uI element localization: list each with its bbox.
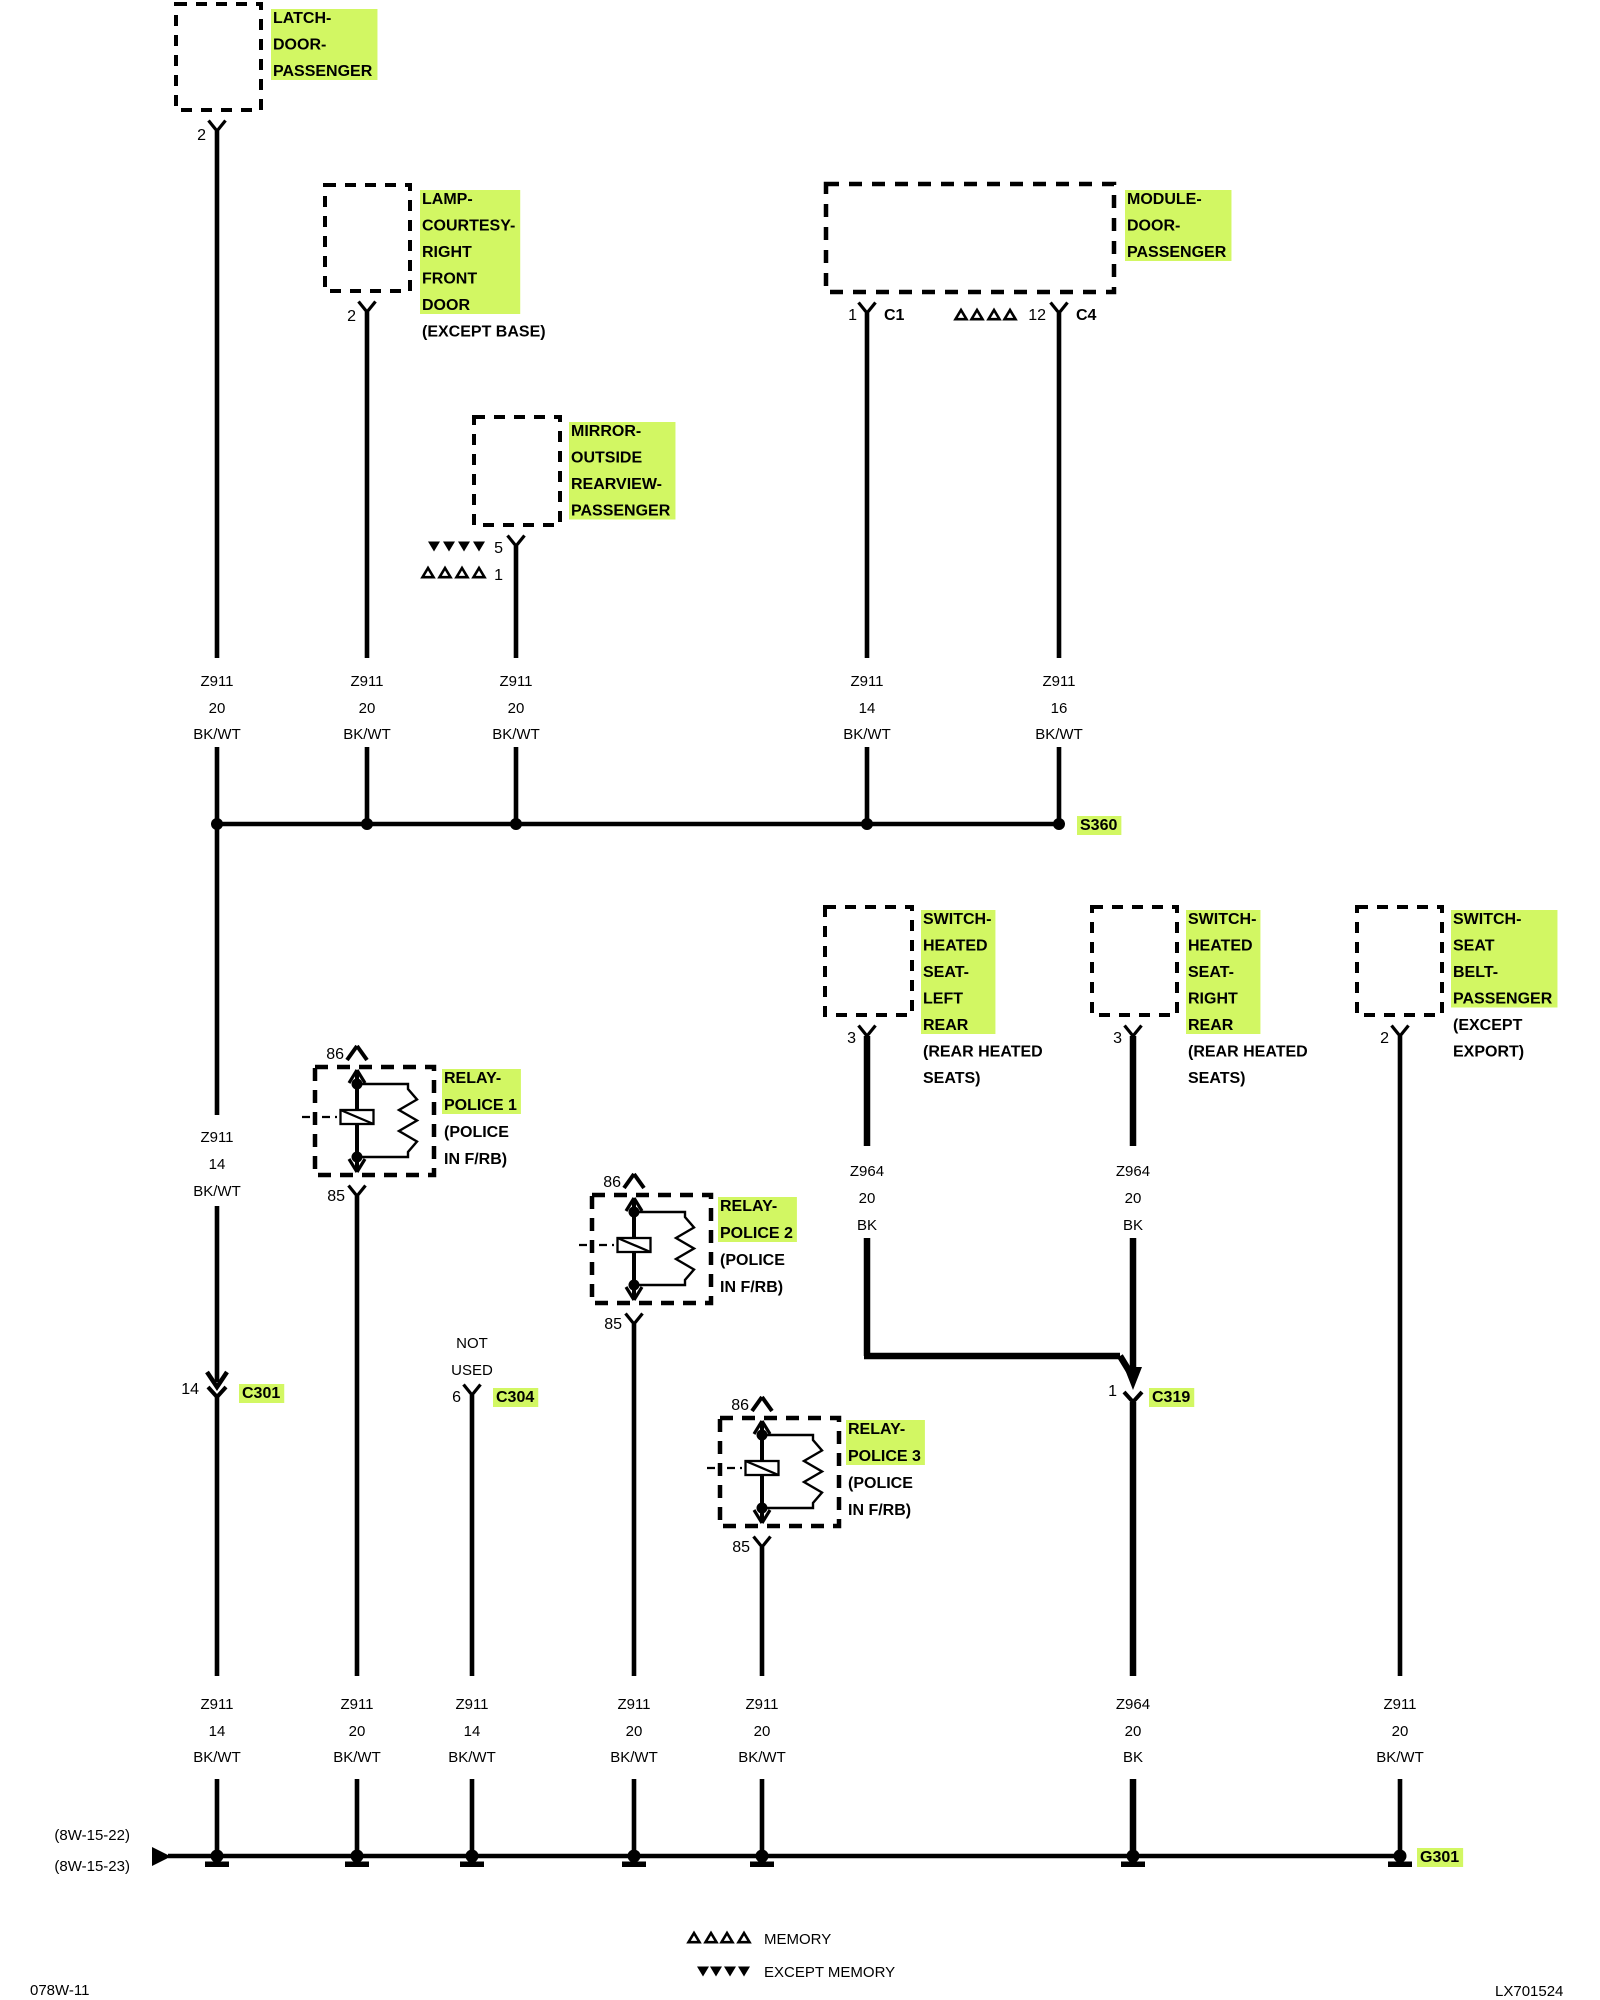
connector label C304 — [493, 1388, 538, 1407]
connector C319 arrow — [1124, 1367, 1142, 1390]
svg-text:BK: BK — [857, 1217, 877, 1234]
relay RELAY-POLICE 1 bottom arrow — [349, 1159, 365, 1172]
wire label Z964 20 BK C319 bottom — [1116, 1696, 1150, 1766]
component box LATCH-DOOR-PASSENGER — [176, 4, 261, 110]
svg-text:86: 86 — [731, 1397, 749, 1414]
svg-text:SEATS): SEATS) — [1188, 1070, 1245, 1087]
svg-text:C4: C4 — [1076, 307, 1097, 324]
svg-text:20: 20 — [209, 700, 226, 717]
relay box RELAY-POLICE 3 — [720, 1418, 839, 1526]
svg-text:FRONT: FRONT — [422, 271, 477, 288]
pin 1 module connector C1 — [859, 303, 876, 314]
svg-text:IN F/RB): IN F/RB) — [720, 1279, 783, 1296]
svg-text:1: 1 — [848, 307, 857, 324]
splice dot S360 col4 — [861, 818, 873, 830]
relay RELAY-POLICE 3 resistor — [762, 1435, 822, 1508]
svg-text:5: 5 — [494, 540, 503, 557]
wire heated-right upper — [1130, 1036, 1137, 1146]
svg-text:RIGHT: RIGHT — [1188, 991, 1238, 1008]
label RELAY-POLICE 3 — [846, 1420, 925, 1519]
connector name C1 — [884, 307, 905, 324]
svg-text:LEFT: LEFT — [923, 991, 963, 1008]
svg-text:DOOR-: DOOR- — [1127, 218, 1180, 235]
svg-text:14: 14 — [209, 1156, 226, 1173]
pin 1 C319 number — [1108, 1383, 1117, 1400]
relay RELAY-POLICE 2 internal wire — [632, 1199, 636, 1299]
svg-text:(POLICE: (POLICE — [444, 1124, 509, 1141]
svg-text:20: 20 — [1392, 1723, 1409, 1740]
svg-text:BK/WT: BK/WT — [843, 726, 891, 743]
label SWITCH-SEAT-BELT-PASSENGER — [1451, 910, 1557, 1061]
pin 86 label RELAY-POLICE 3 — [731, 1397, 749, 1414]
wire heated-left upper — [864, 1036, 871, 1146]
svg-text:PASSENGER: PASSENGER — [273, 63, 373, 80]
ground junction G301 #1 — [205, 1850, 229, 1868]
label SWITCH-HEATED-SEAT-LEFT-REAR — [921, 910, 1043, 1087]
label MIRROR-OUTSIDE-REARVIEW-PASSENGER — [569, 422, 675, 520]
svg-text:20: 20 — [859, 1190, 876, 1207]
svg-text:1: 1 — [1108, 1383, 1117, 1400]
svg-text:REAR: REAR — [923, 1017, 969, 1034]
svg-text:PASSENGER: PASSENGER — [1453, 991, 1553, 1008]
splice bus S360 — [217, 822, 1059, 827]
relay RELAY-POLICE 3 bottom arrow — [754, 1510, 770, 1523]
svg-text:PASSENGER: PASSENGER — [1127, 244, 1227, 261]
wire C304 to G301 — [470, 1779, 475, 1856]
component box LAMP-COURTESY-RIGHT-FRONT-DOOR — [325, 185, 410, 291]
svg-text:BK/WT: BK/WT — [193, 1749, 241, 1766]
wire relay3 pin85 down — [760, 1547, 765, 1676]
svg-text:MIRROR-: MIRROR- — [571, 423, 641, 440]
connector 86 arrow RELAY-POLICE 3 — [752, 1397, 772, 1411]
wire heated-right to C319 — [1130, 1238, 1137, 1372]
svg-text:POLICE 2: POLICE 2 — [720, 1225, 793, 1242]
connector C319 chevron — [1124, 1392, 1142, 1402]
wire label Z911 14 BK/WT col1 bottom — [193, 1696, 241, 1766]
wire seatbelt down — [1398, 1036, 1403, 1676]
svg-text:OUTSIDE: OUTSIDE — [571, 450, 642, 467]
svg-text:EXCEPT MEMORY: EXCEPT MEMORY — [764, 1964, 895, 1981]
ground junction G301 #5 — [750, 1850, 774, 1868]
svg-text:DOOR: DOOR — [422, 297, 470, 314]
svg-text:14: 14 — [209, 1723, 226, 1740]
svg-text:2: 2 — [347, 308, 356, 325]
component box MODULE-DOOR-PASSENGER — [826, 184, 1114, 292]
pin 1 module number — [848, 307, 857, 324]
splice dot S360 col1 — [211, 818, 223, 830]
wire label Z911 20 BK/WT relay2 bottom — [610, 1696, 658, 1766]
svg-text:BK/WT: BK/WT — [738, 1749, 786, 1766]
relay RELAY-POLICE 3 coil — [746, 1461, 779, 1475]
svg-text:REARVIEW-: REARVIEW- — [571, 476, 662, 493]
relay RELAY-POLICE 1 top arrow — [349, 1070, 365, 1083]
svg-text:Z911: Z911 — [745, 1696, 778, 1713]
component box SWITCH-HEATED-SEAT-RIGHT-REAR — [1092, 907, 1177, 1015]
label SWITCH-HEATED-SEAT-RIGHT-REAR — [1186, 910, 1308, 1087]
svg-text:C304: C304 — [496, 1389, 534, 1406]
svg-text:SWITCH-: SWITCH- — [1453, 911, 1521, 928]
pin 3 heated-right connector — [1125, 1026, 1142, 1037]
svg-text:Z964: Z964 — [850, 1163, 884, 1180]
svg-text:85: 85 — [327, 1188, 345, 1205]
svg-text:16: 16 — [1051, 700, 1068, 717]
svg-text:(EXCEPT BASE): (EXCEPT BASE) — [422, 324, 546, 341]
svg-text:BK/WT: BK/WT — [1035, 726, 1083, 743]
relay RELAY-POLICE 3 top arrow — [754, 1421, 770, 1434]
relay RELAY-POLICE 1 junction bottom — [352, 1152, 363, 1163]
connector label C319 — [1149, 1388, 1194, 1407]
connector name C4 — [1076, 307, 1097, 324]
svg-text:20: 20 — [1125, 1723, 1142, 1740]
svg-text:Z911: Z911 — [350, 673, 383, 690]
svg-text:20: 20 — [359, 700, 376, 717]
svg-text:BK/WT: BK/WT — [1376, 1749, 1424, 1766]
svg-text:C1: C1 — [884, 307, 905, 324]
svg-text:BK/WT: BK/WT — [193, 726, 241, 743]
label RELAY-POLICE 1 — [442, 1069, 521, 1168]
svg-text:C301: C301 — [242, 1385, 280, 1402]
ground label G301 — [1417, 1848, 1463, 1867]
wire lamp to S360 (lower) — [365, 747, 370, 824]
svg-text:COURTESY-: COURTESY- — [422, 218, 515, 235]
pin 3 heated-left connector — [859, 1026, 876, 1037]
svg-text:SEAT-: SEAT- — [923, 964, 969, 981]
wire latch to S360 (lower) — [215, 747, 220, 824]
svg-text:(POLICE: (POLICE — [720, 1252, 785, 1269]
label MODULE-DOOR-PASSENGER — [1125, 190, 1231, 261]
svg-text:RIGHT: RIGHT — [422, 244, 472, 261]
svg-text:2: 2 — [197, 127, 206, 144]
svg-text:HEATED: HEATED — [923, 938, 988, 955]
svg-text:14: 14 — [859, 700, 876, 717]
relay RELAY-POLICE 3 junction top — [757, 1430, 768, 1441]
wire label Z911 20 BK/WT col2 top — [343, 673, 391, 743]
svg-text:IN F/RB): IN F/RB) — [848, 1502, 911, 1519]
connector 86 arrow RELAY-POLICE 2 — [624, 1174, 644, 1188]
pin 3 heated-left number — [847, 1030, 856, 1047]
wire label to C301 — [215, 1206, 220, 1382]
svg-text:6: 6 — [452, 1389, 461, 1406]
svg-text:MODULE-: MODULE- — [1127, 191, 1202, 208]
wire mirror to S360 (upper) — [514, 546, 519, 658]
pin 5 mirror connector — [508, 536, 525, 547]
legend MEMORY text — [764, 1931, 831, 1948]
ground junction G301 #6 — [1121, 1850, 1145, 1868]
pin 85 connector RELAY-POLICE 3 — [754, 1537, 771, 1548]
splice dot S360 col2 — [361, 818, 373, 830]
pin 86 label RELAY-POLICE 2 — [603, 1174, 621, 1191]
note NOT USED — [451, 1335, 493, 1379]
svg-text:S360: S360 — [1080, 817, 1117, 834]
wire label Z911 20 BK/WT col3 top — [492, 673, 540, 743]
svg-text:85: 85 — [604, 1316, 622, 1333]
ground junction G301 #3 — [460, 1850, 484, 1868]
svg-text:20: 20 — [626, 1723, 643, 1740]
label RELAY-POLICE 2 — [718, 1197, 797, 1296]
svg-text:BK/WT: BK/WT — [610, 1749, 658, 1766]
svg-text:(EXCEPT: (EXCEPT — [1453, 1017, 1523, 1034]
svg-text:G301: G301 — [1420, 1849, 1459, 1866]
pin 85 label RELAY-POLICE 1 — [327, 1188, 345, 1205]
svg-text:(POLICE: (POLICE — [848, 1475, 913, 1492]
svg-text:Z911: Z911 — [499, 673, 532, 690]
wire latch pin2 to S360 (upper) — [215, 131, 220, 658]
svg-text:078W-11: 078W-11 — [30, 1982, 89, 1999]
connector 86 arrow RELAY-POLICE 1 — [347, 1046, 367, 1060]
svg-text:LX701524: LX701524 — [1495, 1983, 1563, 2000]
sheet number 078W-11 — [30, 1982, 89, 1999]
svg-text:BK/WT: BK/WT — [193, 1183, 241, 1200]
relay RELAY-POLICE 2 resistor — [634, 1212, 694, 1285]
svg-text:Z911: Z911 — [850, 673, 883, 690]
wire label Z911 20 BK/WT relay3 bottom — [738, 1696, 786, 1766]
wire label Z964 20 BK heated-left — [850, 1163, 884, 1234]
svg-text:Z964: Z964 — [1116, 1163, 1150, 1180]
ground junction G301 #4 — [622, 1850, 646, 1868]
module memory triangles — [956, 310, 1016, 319]
wire module C1 to S360 (lower) — [865, 747, 870, 824]
relay RELAY-POLICE 2 junction top — [629, 1207, 640, 1218]
offpage arrow to 8W-15 — [152, 1847, 171, 1866]
wire S360 to label (col1 mid) — [215, 824, 220, 1115]
svg-text:HEATED: HEATED — [1188, 938, 1253, 955]
wire module C4 to S360 (upper) — [1057, 313, 1062, 658]
svg-text:2: 2 — [1380, 1030, 1389, 1047]
net label S360 — [1077, 816, 1121, 835]
wire label Z911 20 BK/WT col1 top — [193, 673, 241, 743]
svg-text:NOT: NOT — [456, 1335, 488, 1352]
svg-text:LATCH-: LATCH- — [273, 10, 331, 27]
svg-text:BK: BK — [1123, 1217, 1143, 1234]
offpage reference 8W-15-23 — [54, 1858, 130, 1875]
svg-text:20: 20 — [349, 1723, 366, 1740]
svg-text:BELT-: BELT- — [1453, 964, 1498, 981]
mirror pin 5 except-memory triangles — [428, 542, 485, 552]
svg-text:Z964: Z964 — [1116, 1696, 1150, 1713]
relay RELAY-POLICE 2 top arrow — [626, 1198, 642, 1211]
wire C301 to label (col1 bottom) — [215, 1397, 220, 1676]
wire C304 down — [470, 1395, 475, 1676]
wire module C1 to S360 (upper) — [865, 313, 870, 658]
svg-text:SEAT: SEAT — [1453, 938, 1495, 955]
svg-text:SWITCH-: SWITCH- — [1188, 911, 1256, 928]
wire mirror to S360 (lower) — [514, 747, 519, 824]
legend EXCEPT MEMORY text — [764, 1964, 895, 1981]
svg-text:BK/WT: BK/WT — [448, 1749, 496, 1766]
relay RELAY-POLICE 2 actuator dash-dot link — [579, 1244, 618, 1246]
svg-text:POLICE 3: POLICE 3 — [848, 1448, 921, 1465]
pin 3 heated-right number — [1113, 1030, 1122, 1047]
svg-text:86: 86 — [326, 1046, 344, 1063]
svg-text:1: 1 — [494, 567, 503, 584]
svg-text:14: 14 — [181, 1381, 199, 1398]
wire label Z911 16 BK/WT col5 top — [1035, 673, 1083, 743]
pin 2 lamp number — [347, 308, 356, 325]
svg-text:(REAR HEATED: (REAR HEATED — [923, 1044, 1043, 1061]
svg-text:Z911: Z911 — [1042, 673, 1075, 690]
component box SWITCH-SEAT-BELT-PASSENGER — [1357, 907, 1442, 1015]
svg-text:RELAY-: RELAY- — [848, 1421, 905, 1438]
relay RELAY-POLICE 3 actuator dash-dot link — [707, 1467, 746, 1469]
wire C319 to G301 — [1130, 1779, 1137, 1856]
legend except-memory triangles — [697, 1967, 750, 1977]
relay RELAY-POLICE 3 junction bottom — [757, 1503, 768, 1514]
svg-text:3: 3 — [847, 1030, 856, 1047]
splice dot S360 col5 — [1053, 818, 1065, 830]
pin 85 connector RELAY-POLICE 1 — [349, 1186, 366, 1197]
svg-text:RELAY-: RELAY- — [444, 1070, 501, 1087]
relay RELAY-POLICE 1 internal wire — [355, 1071, 359, 1171]
svg-text:C319: C319 — [1152, 1389, 1190, 1406]
sheet code LX701524 — [1495, 1983, 1563, 2000]
pin 1 mirror number — [494, 567, 503, 584]
wire label Z911 20 BK/WT seatbelt bottom — [1376, 1696, 1424, 1766]
wire C319 down — [1130, 1402, 1137, 1676]
legend memory triangles — [689, 1933, 750, 1942]
svg-text:SEATS): SEATS) — [923, 1070, 980, 1087]
relay RELAY-POLICE 1 junction top — [352, 1079, 363, 1090]
wire lamp pin2 to S360 (upper) — [365, 312, 370, 658]
pin 6 C304 connector — [464, 1385, 481, 1396]
relay RELAY-POLICE 1 coil — [341, 1110, 374, 1124]
svg-text:20: 20 — [754, 1723, 771, 1740]
svg-text:BK: BK — [1123, 1749, 1143, 1766]
offpage reference 8W-15-22 — [54, 1827, 130, 1844]
wire seatbelt to G301 — [1398, 1779, 1403, 1856]
wire label Z911 14 BK/WT col4 top — [843, 673, 891, 743]
splice dot S360 col3 — [510, 818, 522, 830]
svg-text:Z911: Z911 — [455, 1696, 488, 1713]
relay RELAY-POLICE 2 bottom arrow — [626, 1287, 642, 1300]
svg-text:Z911: Z911 — [200, 673, 233, 690]
svg-text:POLICE 1: POLICE 1 — [444, 1097, 517, 1114]
pin 2 latch connector — [209, 121, 226, 132]
svg-text:BK/WT: BK/WT — [333, 1749, 381, 1766]
svg-text:PASSENGER: PASSENGER — [571, 503, 671, 520]
svg-text:Z911: Z911 — [200, 1129, 233, 1146]
relay RELAY-POLICE 2 junction bottom — [629, 1280, 640, 1291]
pin 85 label RELAY-POLICE 3 — [732, 1539, 750, 1556]
relay box RELAY-POLICE 2 — [592, 1195, 711, 1303]
wire relay1 pin85 down — [355, 1196, 360, 1676]
svg-text:SEAT-: SEAT- — [1188, 964, 1234, 981]
ground bus G301 — [168, 1854, 1400, 1859]
svg-text:14: 14 — [464, 1723, 481, 1740]
wire relay3 to G301 — [760, 1779, 765, 1856]
svg-text:3: 3 — [1113, 1030, 1122, 1047]
svg-text:SWITCH-: SWITCH- — [923, 911, 991, 928]
ground junction G301 #2 — [345, 1850, 369, 1868]
svg-text:20: 20 — [1125, 1190, 1142, 1207]
wire relay2 to G301 — [632, 1779, 637, 1856]
wire label Z911 14 BK/WT col1 mid — [193, 1129, 241, 1200]
wire label Z911 20 BK/WT relay1 bottom — [333, 1696, 381, 1766]
wire heated-left horizontal to C319 — [864, 1356, 1131, 1374]
wire label Z964 20 BK heated-right — [1116, 1163, 1150, 1234]
pin 2 seatbelt connector — [1392, 1026, 1409, 1037]
relay RELAY-POLICE 3 internal wire — [760, 1422, 764, 1522]
component box MIRROR-OUTSIDE-REARVIEW-PASSENGER — [474, 417, 560, 525]
pin 14 C301 number — [181, 1381, 199, 1398]
svg-text:12: 12 — [1028, 307, 1046, 324]
component box SWITCH-HEATED-SEAT-LEFT-REAR — [825, 907, 912, 1015]
relay RELAY-POLICE 1 resistor — [357, 1084, 417, 1157]
mirror pin 1 memory triangles — [423, 568, 485, 577]
svg-text:Z911: Z911 — [340, 1696, 373, 1713]
svg-text:Z911: Z911 — [617, 1696, 650, 1713]
pin 2 seatbelt number — [1380, 1030, 1389, 1047]
svg-text:DOOR-: DOOR- — [273, 37, 326, 54]
wire heated-left to corner — [864, 1238, 871, 1356]
connector label C301 — [239, 1384, 284, 1403]
wire relay1 to G301 — [355, 1779, 360, 1856]
svg-text:86: 86 — [603, 1174, 621, 1191]
connector C301 lower chevron — [208, 1387, 226, 1397]
wire relay2 pin85 down — [632, 1324, 637, 1676]
svg-text:BK/WT: BK/WT — [343, 726, 391, 743]
ground junction G301 #7 — [1388, 1850, 1412, 1868]
relay RELAY-POLICE 2 coil — [618, 1238, 651, 1252]
pin 86 label RELAY-POLICE 1 — [326, 1046, 344, 1063]
label LAMP-COURTESY-RIGHT-FRONT-DOOR — [420, 190, 546, 341]
svg-text:RELAY-: RELAY- — [720, 1198, 777, 1215]
relay RELAY-POLICE 1 actuator dash-dot link — [302, 1116, 341, 1118]
svg-text:REAR: REAR — [1188, 1017, 1234, 1034]
pin 2 latch number — [197, 127, 206, 144]
svg-text:85: 85 — [732, 1539, 750, 1556]
svg-text:(REAR HEATED: (REAR HEATED — [1188, 1044, 1308, 1061]
svg-text:IN F/RB): IN F/RB) — [444, 1151, 507, 1168]
svg-text:Z911: Z911 — [1383, 1696, 1416, 1713]
pin 6 C304 number — [452, 1389, 461, 1406]
svg-text:(8W-15-23): (8W-15-23) — [54, 1858, 130, 1875]
svg-text:20: 20 — [508, 700, 525, 717]
connector C301 upper chevron — [207, 1372, 227, 1387]
wire col1 to G301 — [215, 1779, 220, 1856]
svg-text:MEMORY: MEMORY — [764, 1931, 831, 1948]
wire label Z911 14 BK/WT col C304 bottom — [448, 1696, 496, 1766]
pin 12 module connector C4 — [1051, 303, 1068, 314]
svg-text:USED: USED — [451, 1362, 493, 1379]
svg-text:LAMP-: LAMP- — [422, 191, 473, 208]
svg-text:(8W-15-22): (8W-15-22) — [54, 1827, 130, 1844]
svg-text:BK/WT: BK/WT — [492, 726, 540, 743]
wire module C4 to S360 (lower) — [1057, 747, 1062, 824]
pin 85 label RELAY-POLICE 2 — [604, 1316, 622, 1333]
svg-text:Z911: Z911 — [200, 1696, 233, 1713]
relay box RELAY-POLICE 1 — [315, 1067, 434, 1175]
pin 2 lamp connector — [359, 302, 376, 313]
label LATCH-DOOR-PASSENGER — [271, 9, 377, 80]
pin 85 connector RELAY-POLICE 2 — [626, 1314, 643, 1325]
pin 5 mirror number — [494, 540, 503, 557]
pin 12 module number — [1028, 307, 1046, 324]
svg-text:EXPORT): EXPORT) — [1453, 1044, 1524, 1061]
